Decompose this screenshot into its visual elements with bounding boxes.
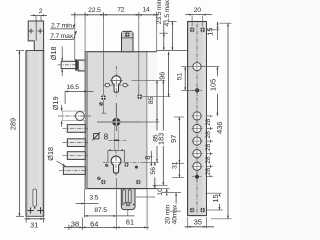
svg-text:Ø18: Ø18 — [46, 147, 55, 161]
svg-text:20: 20 — [194, 7, 202, 14]
latch roller band — [62, 111, 85, 121]
dim 15 top — [205, 22, 219, 40]
dim 8 (rotated, near lower keyhole) — [143, 151, 153, 166]
left view: bottom slot — [33, 189, 37, 209]
dim 10 — [157, 188, 181, 196]
bottom body screws — [97, 177, 100, 180]
dim 96 — [143, 52, 171, 97]
left view: bottom cross marks — [27, 207, 43, 213]
dots beside lower keyhole — [105, 164, 108, 167]
svg-text:Ø18: Ø18 — [49, 46, 58, 60]
oval holes beside cylinder — [103, 83, 130, 86]
svg-text:31: 31 — [171, 161, 178, 169]
latch roller circle — [75, 112, 84, 121]
bottom dim chain 38 64 61 — [64, 189, 155, 230]
label 2.7 min with leader — [50, 22, 75, 29]
dim 8 over lower keyhole — [108, 150, 125, 163]
dim 20 (screw spacing) — [185, 7, 212, 26]
svg-text:61: 61 — [126, 218, 134, 227]
svg-text:2.7 min: 2.7 min — [51, 22, 72, 29]
faceplate top screws — [190, 27, 205, 32]
right faceplate — [188, 22, 207, 216]
square 8 spindle label — [92, 132, 108, 142]
dim 97 — [169, 117, 184, 163]
dim 15 bottom — [206, 193, 223, 210]
dim 31 (left strip width) — [25, 217, 46, 229]
svg-text:23.5 min: 23.5 min — [156, 0, 163, 24]
dim 31 (rotated) — [171, 161, 184, 177]
top bolt dark end cap — [75, 59, 77, 70]
svg-text:Ø19: Ø19 — [51, 96, 60, 110]
top rod screw — [125, 32, 130, 37]
dim 28 stack — [205, 116, 213, 177]
svg-text:40max: 40max — [171, 204, 178, 224]
deadbolt 2 — [67, 139, 85, 147]
dim 51 — [177, 67, 203, 96]
svg-text:15: 15 — [205, 27, 214, 35]
svg-text:41.5 max: 41.5 max — [164, 0, 171, 26]
deadbolt 1 — [67, 125, 85, 133]
screw near cylinder — [101, 95, 106, 100]
svg-text:436: 436 — [215, 121, 224, 133]
svg-text:87.5: 87.5 — [94, 207, 107, 214]
dim 289 (left strip height) — [8, 51, 24, 217]
svg-text:8: 8 — [143, 156, 152, 160]
svg-text:64: 64 — [90, 219, 98, 228]
latch centerline — [58, 115, 91, 117]
dim 87.5 — [84, 178, 134, 230]
svg-text:3.5: 3.5 — [89, 195, 98, 202]
top bolt centerline — [58, 64, 81, 66]
svg-text:289: 289 — [8, 118, 17, 130]
extension stubs continuing inside body — [101, 52, 139, 113]
left view: tall faceplate strip — [26, 51, 44, 217]
thin guide lines below hub — [114, 127, 118, 151]
svg-text:28: 28 — [205, 156, 212, 164]
dim 183 — [153, 80, 168, 185]
dim 56 — [150, 162, 157, 188]
svg-text:72: 72 — [117, 6, 125, 13]
dim 35 — [185, 217, 215, 228]
svg-text:183: 183 — [156, 133, 165, 145]
body right flange strip (light) — [147, 52, 157, 189]
top rod block — [122, 31, 134, 51]
faceplate bottom screws — [190, 208, 205, 213]
svg-text:22.5: 22.5 — [88, 7, 101, 14]
top euro cylinder keyhole — [110, 66, 123, 97]
faceplate bolt hole group (5) — [192, 111, 203, 172]
svg-text:85: 85 — [148, 97, 155, 105]
svg-text:28: 28 — [205, 144, 212, 152]
svg-text:56: 56 — [150, 167, 157, 175]
faceplate bolt hole top — [192, 61, 203, 72]
top latch bolt (side view) — [61, 61, 77, 68]
svg-text:97: 97 — [169, 135, 178, 143]
top dimension chain line — [71, 12, 159, 17]
dim 3.5 — [76, 189, 99, 217]
deadbolt 3 — [67, 152, 85, 160]
dim 85 lower — [141, 122, 160, 162]
svg-text:28: 28 — [205, 168, 212, 176]
svg-text:31: 31 — [30, 221, 38, 230]
svg-text:14: 14 — [142, 6, 150, 13]
svg-text:2: 2 — [39, 8, 43, 15]
rivet dot — [99, 102, 103, 106]
svg-text:28: 28 — [205, 118, 212, 126]
svg-text:51: 51 — [177, 73, 184, 81]
svg-text:28: 28 — [205, 131, 212, 139]
dim 85 upper — [132, 80, 166, 122]
svg-text:7.7 max: 7.7 max — [50, 33, 74, 40]
left view: screw cross marks on top piece — [29, 29, 43, 34]
svg-text:38: 38 — [71, 219, 79, 228]
svg-text:35: 35 — [194, 218, 202, 227]
dim 23.5 min / 41.5 max (rod travel) — [156, 0, 188, 50]
svg-text:105: 105 — [208, 79, 217, 91]
bottom cylinder block — [121, 189, 135, 216]
svg-text:10: 10 — [157, 188, 164, 196]
Ø18 top bolt diameter arrows — [61, 47, 63, 77]
dim 2 (faceplate thickness, top-left) — [31, 8, 48, 21]
screw right upper on body — [137, 94, 142, 99]
dim 105 — [202, 67, 220, 116]
dim 20 min / 40 max — [164, 193, 181, 225]
svg-text:20 min: 20 min — [164, 205, 171, 225]
svg-text:8: 8 — [104, 133, 109, 142]
top bolt guide block — [78, 60, 85, 71]
faceplate dark dot 2 — [192, 176, 202, 178]
central hub — [97, 103, 141, 131]
dim 436 — [211, 23, 232, 219]
label 7.7 max with leader — [50, 31, 77, 40]
lower euro cylinder keyhole — [103, 150, 140, 177]
lock body — [85, 52, 147, 189]
deadbolt 4 (long) — [63, 167, 85, 175]
svg-text:96: 96 — [157, 72, 166, 80]
faceplate edge band on body left — [85, 52, 88, 189]
svg-text:16.5: 16.5 — [66, 84, 79, 91]
spindle axis cross mark below hub — [109, 139, 127, 141]
left view: stepped top piece — [28, 21, 43, 51]
extension stubs from top chain (above body) — [75, 16, 157, 61]
faceplate dark dot 1 — [195, 88, 199, 92]
dim 16.5 — [65, 84, 94, 104]
